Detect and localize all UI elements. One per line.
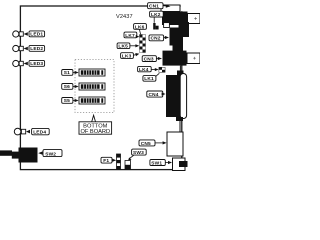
switch bank S3: [79, 83, 105, 90]
label LK3: [121, 53, 140, 60]
label LED2: [24, 45, 45, 52]
label SW2: [38, 150, 62, 158]
LED LED1: [13, 31, 24, 37]
text V2437: [116, 14, 133, 20]
label CN5: [139, 140, 167, 147]
label CN4: [147, 91, 166, 98]
wire CN4-CN5: [179, 121, 181, 132]
dashed bottom-of-board region: [75, 60, 114, 113]
relay K1 (small box right of LK6): [164, 23, 170, 28]
wire CN3-CN4: [179, 66, 181, 71]
switch bank S1: [79, 69, 105, 76]
LED LED3: [13, 60, 24, 66]
svg-text:OF BOARD: OF BOARD: [80, 129, 110, 135]
label LED1: [24, 31, 45, 38]
svg-text:CN3: CN3: [144, 56, 154, 62]
svg-text:S6: S6: [64, 84, 70, 90]
svg-text:SW2: SW2: [45, 151, 56, 157]
label SW1: [150, 160, 172, 167]
callout BOTTOM OF BOARD: [79, 115, 112, 135]
svg-text:V2437: V2437: [116, 14, 133, 20]
LED LED4: [14, 128, 25, 135]
bridge CN1-CN2: [179, 22, 190, 28]
svg-text:LK2: LK2: [151, 12, 161, 18]
label S3: [62, 84, 79, 91]
label LED3: [24, 60, 45, 67]
label CN1: [148, 3, 171, 10]
svg-text:SW1: SW1: [151, 160, 162, 166]
label LK1: [143, 73, 159, 82]
svg-text:LED1: LED1: [30, 32, 43, 38]
connector CN4: [166, 71, 187, 122]
screw mark CN3: [193, 57, 196, 60]
label S1: [62, 70, 79, 77]
label CN3: [142, 56, 162, 63]
svg-text:S5: S5: [64, 98, 70, 104]
label S4: [62, 98, 79, 105]
svg-text:CN4: CN4: [149, 92, 159, 98]
label LED4: [26, 128, 49, 135]
label CN2: [149, 35, 169, 42]
connector CN3: [163, 51, 201, 66]
svg-text:F1: F1: [103, 158, 109, 164]
svg-text:LED2: LED2: [30, 46, 43, 52]
label LK5: [117, 43, 139, 50]
jumper block LK5/LK6/LK7/LK3: [140, 35, 146, 53]
label LK7: [124, 32, 139, 39]
svg-text:S1: S1: [64, 70, 70, 76]
connector CN1: [161, 5, 200, 25]
svg-text:LK4: LK4: [139, 67, 149, 73]
svg-text:LK3: LK3: [122, 53, 132, 59]
jumper block LK4/LK1: [159, 67, 165, 72]
LED LED2: [13, 45, 24, 51]
connector CN2: [170, 25, 190, 46]
svg-text:LED3: LED3: [30, 61, 43, 67]
svg-text:CN5: CN5: [141, 141, 151, 147]
switch SW1: [173, 158, 188, 171]
connector CN5: [167, 132, 183, 156]
svg-text:LK7: LK7: [125, 33, 135, 39]
switch SW2 (power slide switch): [0, 148, 38, 163]
svg-text:CN2: CN2: [151, 36, 161, 42]
screw mark CN1: [194, 17, 197, 20]
svg-text:SW3: SW3: [133, 150, 144, 156]
label LK2: [150, 11, 164, 23]
svg-text:LK5: LK5: [118, 44, 128, 50]
switch bank S4: [79, 97, 105, 104]
label SW3: [128, 149, 146, 160]
board outline: [20, 5, 183, 170]
label LK6: [134, 24, 147, 35]
wire CN2-CN3: [173, 45, 184, 51]
switch SW3: [125, 161, 131, 170]
jumper LK2: [153, 23, 158, 30]
svg-text:CN1: CN1: [149, 4, 159, 10]
label LK4: [138, 66, 159, 73]
label F1: [101, 157, 116, 164]
svg-text:LED4: LED4: [33, 129, 46, 135]
svg-text:LK1: LK1: [144, 76, 154, 82]
fuse F1: [117, 154, 121, 170]
